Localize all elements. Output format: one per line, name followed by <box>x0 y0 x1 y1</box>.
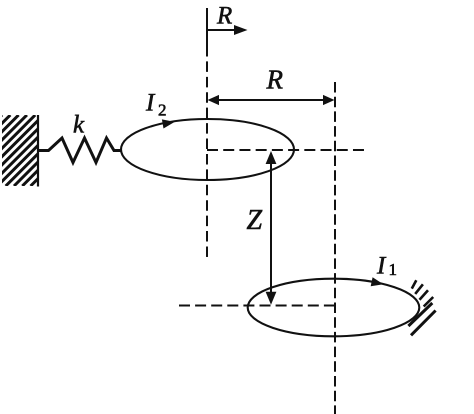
bottom horizontal dashed line <box>179 305 335 307</box>
svg-text:Z: Z <box>247 205 263 236</box>
small R arrow at top <box>207 29 236 31</box>
top horizontal dashed line <box>207 149 364 151</box>
loop 1 ellipse (bottom coil) <box>248 279 420 337</box>
spring k <box>39 138 122 163</box>
left axis dashed vertical <box>206 46 208 257</box>
right fixed support hatching <box>408 280 435 335</box>
wall (left fixed support, hatched) <box>0 115 110 186</box>
loop 2 ellipse (top coil) <box>121 119 294 180</box>
Z double arrow <box>270 158 272 298</box>
current arrow on loop 1 <box>371 277 385 288</box>
right axis dashed vertical <box>334 82 336 414</box>
R double arrow (radius measure) <box>214 99 328 101</box>
svg-text:1: 1 <box>389 260 398 279</box>
svg-text:2: 2 <box>158 101 167 120</box>
svg-text:R: R <box>266 65 284 95</box>
top axis solid segment <box>206 8 208 46</box>
current arrow on loop 2 <box>162 117 176 128</box>
svg-text:R: R <box>216 3 232 30</box>
svg-text:k: k <box>73 112 85 139</box>
wall right edge line <box>37 115 39 187</box>
